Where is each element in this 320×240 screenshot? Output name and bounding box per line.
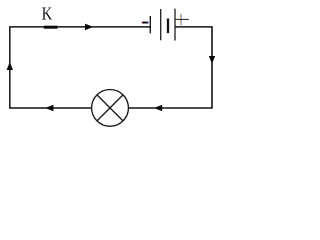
battery plate C (short thick): [167, 19, 169, 34]
wire right vertical: [211, 27, 213, 108]
wire bottom right (corner to lamp): [128, 107, 212, 109]
battery plate B (long): [160, 9, 162, 40]
wire bottom left (lamp to corner): [9, 107, 91, 109]
battery plate A (short, negative terminal): [149, 16, 151, 33]
wire top horizontal (corner to battery negative plate): [9, 26, 150, 28]
current arrow left (bottom wire, right of lamp): [154, 105, 162, 112]
current arrow left (bottom wire, left of lamp): [45, 105, 53, 112]
lamp L (circle with X): [92, 90, 129, 127]
switch closed contact bar: [44, 26, 58, 29]
battery plate D (long, positive terminal): [174, 9, 176, 41]
current arrow right (top wire): [85, 24, 93, 31]
wire left vertical: [9, 27, 11, 108]
battery negative polarity label -: [142, 22, 149, 24]
current arrow down (right wire): [209, 56, 215, 64]
svg-text:K: K: [42, 4, 53, 24]
wire battery positive to top-right corner: [175, 26, 213, 28]
current arrow up (left wire): [7, 62, 13, 70]
battery positive polarity label +: [175, 14, 188, 25]
